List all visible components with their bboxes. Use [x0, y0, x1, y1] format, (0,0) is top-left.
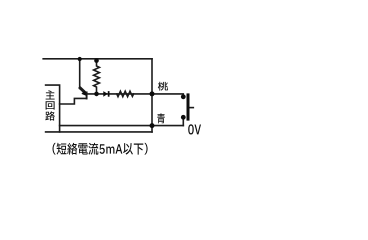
junction dot top rail / collector	[78, 57, 82, 61]
wire switch top lead	[152, 94, 183, 97]
wire switch bottom lead	[182, 117, 184, 125]
label 回	[46, 101, 55, 109]
transistor Q1	[80, 88, 85, 93]
switch contact top	[181, 94, 186, 99]
wire bottom rail	[46, 131, 152, 133]
diode D1	[103, 91, 108, 97]
resistor R1 (vertical)	[94, 61, 100, 94]
label momo (pink)	[158, 82, 168, 91]
label 主	[46, 90, 55, 99]
junction dot top rail / resistor	[94, 58, 99, 63]
label 路	[45, 111, 55, 120]
caption short-circuit current 5mA max	[53, 143, 148, 155]
switch actuator tick	[190, 107, 194, 109]
switch contact bottom	[181, 115, 186, 120]
wire right trunk	[151, 59, 153, 132]
node pink (momo)	[150, 91, 155, 96]
wire collector drop	[79, 59, 81, 89]
wire blue rail	[60, 125, 184, 127]
label 0V	[188, 124, 201, 134]
label ao (blue)	[157, 113, 165, 123]
switch bar	[187, 93, 190, 120]
main circuit box bracket	[46, 85, 60, 132]
junction dot resistor bottom	[94, 92, 99, 97]
resistor R2 (horizontal)	[117, 91, 134, 96]
wire output (emitter to pink node)	[87, 93, 152, 95]
node blue (ao)	[150, 123, 155, 128]
wire top rail	[43, 58, 152, 60]
wire base lead	[60, 98, 87, 104]
transistor Q1 arrowhead	[81, 90, 87, 96]
